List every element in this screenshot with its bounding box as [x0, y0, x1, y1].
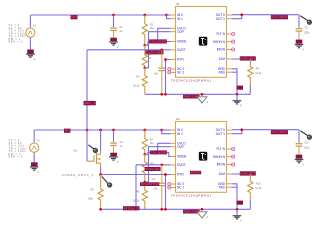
svg-text:M1: M1: [74, 150, 78, 153]
V2 bottom wire: [33, 153, 35, 162]
wire DVDT drop to lower rail: [135, 165, 137, 210]
junction dots input rail block1: [112, 14, 115, 17]
wire OVP: [145, 32, 171, 68]
V1 bottom wire: [29, 38, 31, 50]
wire OUT1 jog: [232, 15, 242, 19]
capacitor C1: [113, 26, 115, 29]
ground below C1: [109, 42, 118, 45]
svg-text:MODE: MODE: [177, 40, 186, 44]
svg-text:12.1k: 12.1k: [255, 187, 262, 190]
ground below V1: [26, 54, 35, 57]
net label 0 at IC ground: [237, 201, 243, 205]
U1 right pin stubs: [227, 14, 232, 16]
junction dots on return rail: [160, 93, 163, 96]
net label DVDT: [145, 167, 161, 171]
svg-text:DVDT: DVDT: [177, 163, 186, 167]
junction R5 at return rail: [99, 208, 102, 211]
U1 left pin stubs: [171, 14, 176, 16]
svg-text:ILIM_SET: ILIM_SET: [240, 171, 255, 175]
net label OUT: [271, 130, 288, 134]
mid resistor of divider: [142, 154, 147, 182]
wire RTN: [166, 60, 171, 95]
open pin circles FLT SHDN IMON: [232, 147, 235, 150]
net label on input rail block2: [64, 129, 71, 133]
svg-text:TPS2HCS10AQPWRQ1: TPS2HCS10AQPWRQ1: [171, 193, 212, 197]
wire PAD pin: [232, 71, 237, 73]
wire tap to MODE pin: [145, 42, 171, 46]
net label DVDT: [146, 50, 164, 54]
junction GND node: [236, 93, 239, 96]
wire OUT0 to output: [232, 14, 299, 16]
return rail block1: [145, 93, 251, 95]
junction DVDT drop at block2 rail: [86, 129, 89, 132]
voltage source V1: [29, 26, 31, 29]
wire to IC ground: [236, 209, 238, 215]
resistor R5: [98, 175, 103, 210]
svg-text:OUT 1: OUT 1: [216, 132, 225, 136]
svg-text:PER = 2: PER = 2: [9, 156, 23, 159]
wire ILIM: [232, 173, 251, 175]
svg-text:MODE: MODE: [177, 155, 186, 159]
capacitor C3 branch wire: [113, 130, 115, 142]
resistor R3: [142, 68, 147, 95]
svg-text:100k: 100k: [88, 198, 94, 201]
svg-text:U1: U1: [176, 2, 180, 6]
transistor M1 power NMOS: [87, 151, 101, 168]
wire to IC ground: [236, 94, 238, 100]
ground below C3: [109, 157, 118, 160]
svg-text:PAD: PAD: [219, 185, 226, 189]
svg-text:RTN: RTN: [177, 58, 184, 62]
svg-text:RTN_2: RTN_2: [124, 206, 140, 210]
U1 TI logo: [199, 37, 208, 46]
net label on input rail block1: [71, 15, 78, 19]
net label MODE: [150, 150, 167, 154]
svg-text:OUT 1: OUT 1: [216, 17, 225, 21]
output capacitor C6: [298, 143, 300, 144]
svg-text:V2: V2: [36, 138, 40, 142]
svg-text:PAD: PAD: [219, 70, 226, 74]
resistor R10: [248, 174, 253, 200]
junction GND node: [236, 208, 239, 211]
capacitor C1 branch wire: [113, 15, 115, 27]
wire ILIM: [232, 58, 251, 60]
wire input rail block1: [30, 14, 166, 16]
junction OUT: [240, 13, 243, 16]
outline ground at return rail: [197, 212, 207, 218]
net label 0 at V2 ground: [31, 162, 38, 166]
M1 source junction: [99, 173, 102, 176]
svg-text:220n: 220n: [304, 147, 310, 150]
wire DVDT: [136, 164, 171, 166]
svg-text:FLT N: FLT N: [216, 147, 225, 151]
net label 0 at IC ground: [237, 86, 243, 90]
wire tap to MODE pin: [145, 152, 171, 156]
probe at M1 source: [102, 177, 108, 184]
wire rail to M1 drain: [100, 130, 102, 151]
net label MODE: [149, 39, 167, 43]
svg-text:IMON: IMON: [217, 48, 226, 52]
resistor R2: [142, 15, 147, 45]
wire rail to IN pins: [167, 14, 171, 16]
wire PAD pin: [232, 186, 237, 188]
svg-text:DVDT: DVDT: [177, 48, 186, 52]
svg-text:NC 1: NC 1: [177, 71, 184, 75]
junction OUT: [240, 128, 243, 131]
svg-text:R10: R10: [256, 183, 261, 186]
divider mid junction: [143, 181, 146, 184]
wire R4 to ground node: [249, 85, 251, 94]
ground below V2: [30, 167, 39, 170]
open pin circles NC: [168, 67, 171, 70]
svg-text:POWER_NMOS_P: POWER_NMOS_P: [62, 174, 94, 177]
svg-text:IN: IN: [71, 15, 77, 19]
svg-text:IMON: IMON: [217, 163, 226, 167]
svg-text:220n: 220n: [304, 32, 310, 35]
svg-text:FLT N: FLT N: [216, 32, 225, 36]
net label ILIM: [240, 171, 256, 175]
wire GND pin: [232, 69, 237, 95]
resistor R7: [142, 130, 147, 154]
wire output down to cap: [298, 130, 300, 143]
U2 TI logo: [199, 152, 208, 161]
svg-text:ILIM: ILIM: [219, 172, 225, 176]
probe at M1 gate: [88, 145, 94, 149]
svg-text:RTN: RTN: [191, 171, 201, 175]
return rail block2: [101, 208, 251, 210]
net label 0 at V1 ground: [27, 50, 34, 54]
tap junction R2: [143, 44, 146, 47]
svg-text:DVDT2: DVDT2: [141, 182, 160, 186]
wire OUT1 jog: [232, 130, 242, 134]
wire UVLO: [158, 28, 171, 39]
capacitor C3: [113, 141, 115, 144]
high-side switch IC U2 body: [176, 122, 227, 193]
outline ground at return rail: [197, 97, 207, 103]
svg-text:3.3V_MODE: 3.3V_MODE: [149, 39, 166, 43]
svg-text:PER = 2: PER = 2: [9, 41, 23, 44]
svg-text:TPS2HCS10AQPWRQ1: TPS2HCS10AQPWRQ1: [171, 78, 212, 82]
resistor R9: [142, 182, 147, 209]
wire R10 to ground node: [249, 200, 251, 209]
svg-text:OUT_PROT: OUT_PROT: [271, 15, 287, 19]
U2 right pin stubs: [227, 129, 232, 131]
svg-text:V1: V1: [33, 23, 37, 27]
ground below IC: [233, 101, 242, 104]
net label 0 at C6: [296, 155, 303, 159]
output capacitor C5: [298, 28, 300, 29]
svg-text:IN 1: IN 1: [177, 17, 183, 21]
mid resistor of divider: [142, 45, 147, 68]
capacitor C4: [161, 165, 163, 183]
svg-text:RTN: RTN: [177, 173, 184, 177]
net label on return rail left: [123, 206, 140, 210]
svg-text:12.1k: 12.1k: [255, 72, 262, 75]
wire input rail block2: [34, 129, 162, 131]
voltage probe at output: [300, 16, 308, 21]
svg-text:SEL_1: SEL_1: [84, 101, 96, 105]
ground below IC: [233, 216, 242, 219]
wire U1 DVDT drop down to M1 gate: [86, 50, 88, 161]
svg-text:ILIM_SET: ILIM_SET: [240, 56, 255, 60]
net label on return rail: [183, 95, 200, 99]
high-side switch IC U1 body: [176, 7, 227, 78]
svg-text:SHDN N: SHDN N: [213, 40, 226, 44]
net label OUT: [271, 15, 288, 19]
junction C2 top: [160, 48, 163, 51]
svg-text:OVP: OVP: [177, 145, 184, 149]
wire M1 source down: [100, 168, 102, 175]
svg-text:U2: U2: [176, 117, 180, 121]
svg-text:IN 1: IN 1: [177, 132, 183, 136]
resistor R4: [248, 59, 253, 85]
voltage source V2: [33, 141, 35, 144]
U2 left pin stubs: [171, 129, 176, 131]
wire RTN: [101, 174, 171, 176]
net label 0 at C5: [296, 40, 303, 44]
junction dots on return rail: [160, 208, 163, 211]
wire OVP: [145, 147, 171, 182]
svg-text:OVP: OVP: [177, 30, 184, 34]
net label ILIM: [240, 56, 256, 60]
net label on return rail: [183, 210, 200, 214]
svg-text:3.3V_MODE: 3.3V_MODE: [150, 150, 166, 154]
wire output down to cap: [298, 15, 300, 28]
open pin circles FLT SHDN IMON: [232, 32, 235, 35]
divider mid junction: [143, 66, 146, 69]
svg-text:30.1k: 30.1k: [133, 85, 140, 88]
svg-text:22n: 22n: [154, 72, 159, 75]
open pin circles NC: [168, 182, 171, 185]
voltage probe at output: [300, 131, 308, 136]
svg-text:SHDN N: SHDN N: [213, 155, 226, 159]
ground below C5: [295, 45, 304, 48]
net label 0 at C1: [110, 38, 117, 42]
svg-text:IN: IN: [65, 129, 70, 133]
wire UVLO: [158, 143, 171, 150]
wire OUT0 to output: [232, 129, 299, 131]
svg-text:ILIM: ILIM: [219, 57, 225, 61]
wire rail to IN pins: [162, 129, 171, 131]
junction dots input rail block2: [99, 129, 102, 132]
net label at C4 top plate: [140, 182, 159, 186]
capacitor C2: [161, 50, 163, 68]
net label inside U2 at RTN: [190, 171, 201, 175]
net label 0 at C3: [110, 153, 117, 157]
wire GND pin: [232, 184, 237, 210]
tap junction R7: [143, 153, 146, 156]
junction C4 top: [160, 163, 163, 166]
net label on DVDT drop wire: [84, 101, 96, 105]
wire DVDT: [87, 49, 171, 51]
svg-text:22n: 22n: [154, 187, 159, 190]
ground below C6: [295, 160, 304, 163]
svg-text:NC 1: NC 1: [177, 186, 184, 190]
svg-text:OUT_PROT: OUT_PROT: [271, 130, 287, 134]
